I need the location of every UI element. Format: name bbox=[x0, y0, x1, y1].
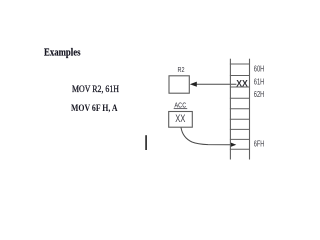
text cursor bar bbox=[145, 135, 147, 150]
register box ACC bbox=[169, 112, 193, 128]
register box R2 bbox=[169, 76, 189, 93]
memory ladder rungs bbox=[230, 64, 250, 149]
arrow from memory cell 61H to R2 box bbox=[196, 83, 236, 85]
svg-text:ACC: ACC bbox=[174, 100, 186, 109]
svg-text:MOV 6F H, A: MOV 6F H, A bbox=[71, 104, 118, 114]
svg-text:MOV R2, 61H: MOV R2, 61H bbox=[72, 85, 119, 95]
memory ladder left vertical bbox=[229, 59, 231, 160]
memory ladder right vertical bbox=[249, 59, 251, 160]
svg-text:60H: 60H bbox=[254, 64, 265, 73]
svg-text:R2: R2 bbox=[178, 65, 185, 74]
svg-text:XX: XX bbox=[236, 78, 248, 88]
curved arrow from ACC to memory cell 6FH bbox=[181, 128, 231, 145]
svg-text:62H: 62H bbox=[254, 90, 265, 99]
svg-text:6FH: 6FH bbox=[254, 139, 265, 148]
svg-text:XX: XX bbox=[175, 113, 186, 125]
svg-text:61H: 61H bbox=[254, 77, 265, 86]
svg-text:Examples: Examples bbox=[44, 48, 81, 59]
